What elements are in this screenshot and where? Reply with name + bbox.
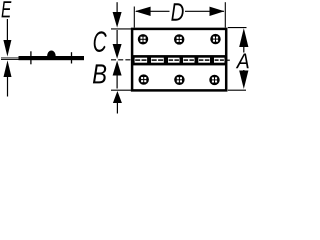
A dimension: arrowhead pointing up [239,28,248,47]
D dimension: arrowhead pointing left [135,7,151,16]
C dimension: outer arrowhead pointing down at plate top edge [113,12,122,28]
top view: pin centerline extension left [111,59,132,61]
A dimension: label A [236,54,249,69]
top view: pin centerline extension right [227,59,230,61]
side view: knuckle dome [47,51,56,57]
top view: screw hole bottom-right [209,75,219,85]
A dimension: top extension line [228,27,247,29]
side view: hinge leaf solid bar [19,56,85,60]
A dimension: upper line stub [243,46,245,53]
top view: screw hole top-middle [174,34,184,44]
C dimension: top outer arrow line [116,2,118,14]
B dimension: bottom outer arrow line [116,103,118,114]
C dimension: arrowhead pointing down at centerline [113,44,122,59]
B dimension: arrowhead pointing up at centerline [113,61,122,76]
B dimension: inner line [116,75,118,89]
top view: pin hidden line dashes inside knuckles [135,59,224,61]
B dimension: bottom edge extension line [111,89,132,91]
top view: screw hole top-left [138,34,148,44]
side view: tick mark left [30,51,32,64]
top view: screw hole top-right [210,34,220,44]
side view: E dimension line (upper) [6,19,8,42]
D dimension: line left segment [136,10,170,12]
D dimension: label D [171,3,183,20]
D dimension: line right segment [185,10,224,12]
top view: hinge plate outline [132,29,226,91]
A dimension: arrowhead pointing down [239,71,248,89]
side view: E dimension arrowhead pointing up at leaf bottom [4,60,12,77]
side view: dimension label E [2,1,12,17]
D dimension: left extension line [133,7,135,28]
C dimension: inner line [116,30,118,46]
D dimension: right extension line [224,2,226,27]
side view: tick mark right [71,52,73,63]
side view: E dimension arrowhead pointing down at leaf top [3,40,11,57]
top view: knuckle band (barrel) [132,55,226,65]
C dimension: top edge extension line [111,28,132,30]
B dimension: label B [93,64,106,83]
A dimension: lower line stub [243,70,245,74]
A dimension: bottom extension line [228,89,246,91]
side view: hinge leaf cross-section (thin open plate, two lines) [1,57,19,60]
C dimension: label C [94,31,107,52]
D dimension: arrowhead pointing right [210,7,225,16]
top view: screw hole bottom-middle [174,75,184,85]
side view: E dimension line (lower) [7,76,9,97]
B dimension: outer arrowhead pointing up at plate bottom edge [113,91,122,103]
top view: screw hole bottom-left [139,74,149,84]
